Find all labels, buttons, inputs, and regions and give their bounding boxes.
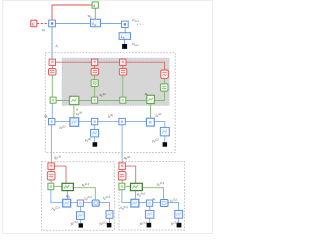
wire blue row segments right sub <box>139 203 179 211</box>
box BX3 (blue box) <box>92 200 99 206</box>
node GJ1 (green junction) <box>50 97 56 103</box>
node GJ2 (green junction) <box>92 97 98 103</box>
node J1 (blue junction) <box>122 21 129 27</box>
wire blue BF2 stem to square <box>164 136 166 142</box>
wire green F4 to GF2 <box>164 78 166 84</box>
main dashed box <box>45 53 175 153</box>
sub-box left dashed <box>41 162 114 231</box>
box GIcon1 (green icon box) <box>70 96 79 104</box>
output square SQa' <box>147 223 152 228</box>
wire red R2 to F2 <box>94 65 96 68</box>
node GJ3 (green junction) <box>120 97 126 103</box>
node J0 (blue junction) <box>49 20 56 27</box>
output square SQb <box>107 223 112 228</box>
wire green GJ to BG <box>54 185 62 187</box>
wire green G0 down to A0 <box>94 8 96 19</box>
node RJ (red junction) <box>48 163 55 170</box>
wire green BG down to BI1 <box>66 191 68 200</box>
wire green BG right elbow down to BX3 <box>73 188 95 200</box>
node R1 (red junction) <box>49 59 55 65</box>
wire green GJ' to BG' <box>125 185 131 187</box>
output square SQ2 <box>163 142 168 147</box>
svg-text:Pk+1: Pk+1 <box>132 43 139 48</box>
wire green GIcon1 down to BIcon1 <box>73 105 75 118</box>
box RF' (red filter) <box>118 172 126 180</box>
box BIcon1 (blue icon box) <box>70 118 79 127</box>
wire blue BJ2 down <box>79 206 81 211</box>
wire green BG' down to BI1' <box>134 191 136 200</box>
wire blue BF1 stem to square <box>94 137 96 142</box>
wire blue GJ elbow to blue row <box>51 190 63 203</box>
box F3 (red filter) <box>119 68 127 75</box>
wire green F2 to GF1 <box>94 75 96 80</box>
node BJ2 (blue junction) <box>77 200 83 206</box>
svg-text:θ: θ <box>93 4 95 8</box>
box G0 (green top) <box>92 2 98 8</box>
wire red up from node J0 to G0 <box>52 5 92 20</box>
box F4 (red filter) <box>161 70 169 78</box>
box A0 (blue) <box>91 19 101 27</box>
box BFa (blue filter) <box>77 212 85 220</box>
wire green F1 down to GJ1 <box>51 75 53 97</box>
node GJ' (green junction) <box>119 183 125 190</box>
wire green RF' to GJ' <box>121 180 123 183</box>
box BF2 (blue filter) <box>160 127 169 135</box>
box BFa' (blue filter) <box>145 210 154 218</box>
wire blue row <box>52 122 165 128</box>
wire red RJ' to RF' <box>121 169 123 171</box>
wire blue L0 down to output square <box>124 39 126 44</box>
wire blue BJ2' down <box>149 206 151 210</box>
wire blue J0 down into main box <box>51 27 53 59</box>
wire blue BFb stem <box>109 218 111 223</box>
svg-text:wg: wg <box>88 14 92 19</box>
wire green BG' right elbow down to BX3' <box>142 188 163 200</box>
wire blue feeder2 BJ4 down to right sub-box <box>121 125 123 163</box>
svg-text:Pk+1: Pk+1 <box>132 18 139 23</box>
wire blue row segments <box>71 203 110 211</box>
wire blue GJ' elbow to blue row <box>122 190 131 203</box>
box BFb (blue filter) <box>106 211 113 219</box>
wire blue BFb' stem <box>178 218 180 223</box>
box BFb' (blue filter) <box>175 210 183 218</box>
wire green F3 down to GJ3 <box>122 75 124 97</box>
sub-box right dashed <box>119 162 185 230</box>
node GJ (green junction) <box>48 183 54 190</box>
svg-text:qk(1): qk(1) <box>54 155 60 161</box>
wire red input dashed <box>37 23 49 25</box>
node R3 (red junction) <box>120 59 126 65</box>
wire blue J1 down to L0 <box>124 28 126 33</box>
wire green GIcon2 down to BJ5 <box>150 104 152 119</box>
svg-text:λf: λf <box>54 44 58 49</box>
wire blue BFa stem <box>79 220 81 224</box>
box BX3' (blue box) <box>160 200 168 207</box>
box BI1 (blue icon box) <box>63 199 71 207</box>
node BJ2' (blue junction) <box>147 200 153 206</box>
wire red RJ to RF <box>50 169 52 171</box>
wire blue GJ1 down to BJ1 <box>51 103 53 118</box>
box F1 (red filter) <box>49 68 57 75</box>
node BJ1 (blue junction) <box>49 118 55 124</box>
wire green GF1 to GJ2 <box>94 87 96 98</box>
wire blue J0 to A0 <box>55 22 90 24</box>
wire red row <box>52 62 164 70</box>
wire red elbow RJ to BG top <box>54 166 66 183</box>
wire red R1 to F1 <box>51 65 53 68</box>
node BJ5 (blue junction) <box>146 118 154 126</box>
svg-text:xk: xk <box>41 28 46 33</box>
box F2 (red filter) <box>91 68 99 75</box>
gray shaded region <box>62 58 169 105</box>
wire red elbow RJ' to BG' top <box>125 166 135 183</box>
node BJ4 (blue junction) <box>119 118 125 124</box>
canvas frame <box>3 1 213 234</box>
box BI1' (blue icon box) <box>131 199 139 207</box>
node BJ3 (blue junction) <box>91 118 97 124</box>
output square B0 <box>122 44 127 49</box>
box BG (big green box) <box>62 183 73 190</box>
box L0 (blue) <box>119 33 130 40</box>
node R2 (red junction) <box>91 59 97 65</box>
box E (red source) <box>31 20 37 27</box>
wire blue BJ3 down to BF1 <box>94 125 96 130</box>
box BG' (big green box) <box>131 183 143 190</box>
wire blue BFa' stem <box>149 218 151 223</box>
wire green RF to GJ <box>50 180 52 183</box>
box GF2 (green filter) <box>160 84 168 91</box>
output square SQb' <box>177 223 182 228</box>
wire red R3 to F3 <box>122 65 124 68</box>
svg-text:qk(2): qk(2) <box>124 155 130 161</box>
output square SQa <box>79 223 83 227</box>
wire blue dotted continuation after J1 <box>137 23 144 25</box>
box RF (red filter) <box>47 172 55 180</box>
wire green row <box>52 100 155 102</box>
box GF1 (green filter) <box>91 80 98 87</box>
box GIcon2 (green icon box) <box>147 95 155 103</box>
node RJ' (red junction) <box>119 163 126 170</box>
output square SQ1 <box>93 142 98 147</box>
wire green GF2 elbow to GIcon2 <box>154 91 164 100</box>
box BF1 (blue filter) <box>91 129 99 137</box>
svg-text:Λw: Λw <box>92 22 96 27</box>
svg-text:Lw: Lw <box>121 35 125 40</box>
wire blue A0 to J1 <box>101 22 122 24</box>
wire blue feeder1 BJ1 down to left sub-box <box>50 125 52 163</box>
